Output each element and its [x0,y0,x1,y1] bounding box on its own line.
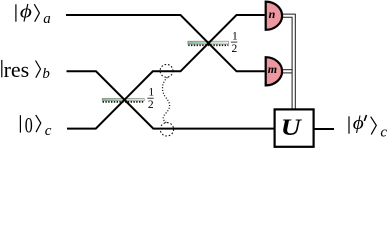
BS1 label 1/2 [147,87,154,112]
dashed circle on rail b (entangled mode) [160,64,173,77]
svg-text:c: c [380,124,387,140]
detector n (photon counter) [266,2,282,30]
svg-text:c: c [45,123,52,139]
svg-text:a: a [43,11,51,27]
svg-text:ϕ: ϕ [353,113,364,134]
svg-text:0: 0 [25,113,33,138]
svg-text:ϕ: ϕ [20,1,32,22]
unitary box U [275,109,314,146]
classical double wire from detector n down to U [283,14,295,109]
wire: U box output [314,128,334,130]
label |0>_c [20,113,51,140]
svg-text:b: b [42,66,50,82]
wavy dotted entanglement line [163,77,170,122]
svg-text:2: 2 [148,99,154,111]
svg-text:1: 1 [232,30,238,42]
label |res>_b [2,57,51,82]
svg-text:m: m [268,62,277,76]
classical double wire from detector m [283,70,292,73]
svg-text:n: n [269,7,276,21]
beam splitter BS1 bar (green) [102,98,144,102]
label |phi>_a [16,1,51,26]
wire: rail b through BS1 down to U box [67,71,274,128]
svg-text:2: 2 [232,43,238,55]
svg-text:res: res [4,57,30,82]
BS2 label 1/2 [231,30,238,55]
beam splitter BS2 bar (green) [188,41,229,45]
label |phi'>_c (output) [349,113,387,140]
svg-text:1: 1 [148,87,154,99]
wire: rail c through BS1 up through BS2 to detector n [67,15,265,129]
wire: rail a into BS2 down to detector m [66,15,265,71]
detector m (photon counter) [266,57,282,85]
svg-text:U: U [281,115,303,140]
dashed circle on rail c (entangled mode) [160,123,173,136]
